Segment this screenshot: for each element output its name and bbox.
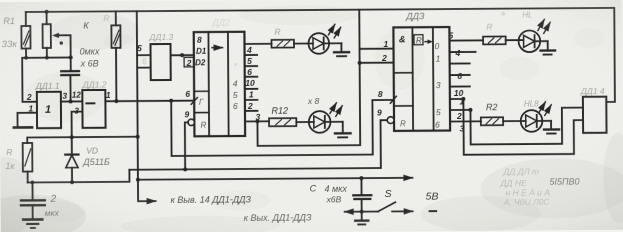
ground below C2 — [23, 219, 42, 228]
pin 6 DD1.3 wire down to supply line — [137, 55, 151, 180]
wire bottom minus rail right with arrow — [392, 210, 412, 212]
node dot DD3 pin2 out — [468, 108, 472, 112]
LED arrows row C — [538, 19, 550, 33]
ground row A — [334, 43, 349, 56]
LED arrows row B — [330, 103, 342, 117]
ground at DD1.1 pin 1 — [14, 126, 32, 129]
wire DD3 pin 2 — [360, 62, 394, 64]
ground row C — [540, 41, 555, 55]
noise speck — [60, 41, 63, 44]
node dot DD3 clock tap — [358, 61, 362, 65]
LED arrows row A — [328, 24, 340, 38]
ground row D — [544, 121, 559, 134]
node dot R3/out — [114, 99, 118, 103]
resistor row C — [483, 36, 506, 44]
node dot supply vertical — [136, 135, 140, 139]
capacitor C1 — [61, 57, 79, 101]
pin 11 output DD1.2 wire — [105, 89, 194, 101]
switch S1 lever — [378, 202, 395, 211]
pin 4 output DD1.3 wire to DD2 — [171, 54, 194, 56]
resistor R12 (row B) — [269, 118, 296, 126]
counter DD2 box — [194, 32, 245, 137]
wire y3 reset line (to R pins) — [129, 120, 388, 170]
capacitor C2 — [21, 182, 45, 219]
wire y4 supply line — [138, 178, 412, 180]
node dot DD2 pin3 — [255, 119, 259, 123]
DD2 clock input C with dynamic slash — [191, 98, 204, 107]
faint parts list text — [499, 166, 579, 207]
DD2 reset bubble pin 9 — [188, 119, 194, 125]
ground below C3 — [355, 212, 368, 225]
wire DD3 pin 1 — [360, 48, 394, 50]
DD2 output pin numbers — [245, 45, 261, 122]
LED HL row A — [294, 33, 342, 54]
wire bottom minus rail left with arrow — [345, 211, 379, 213]
node dot reset/DD2 R — [183, 167, 187, 171]
gate DD1.4 — [583, 97, 607, 133]
pin 3 output DD1.1 wire — [61, 91, 83, 102]
resistor R3 — [111, 11, 121, 101]
DD3 output pin numbers — [448, 30, 464, 133]
LED arrows row D — [539, 102, 551, 116]
node dot C3 bottom rail — [360, 210, 364, 214]
node dot C3 top — [359, 176, 363, 180]
node dot C1 bottom — [69, 99, 73, 103]
label R1 value — [1, 16, 17, 49]
wire R4 top to supply vertical — [27, 137, 137, 143]
junction dots bottom rail — [24, 55, 73, 59]
DD3 internal state labels 0 1 3 5 6 — [434, 41, 441, 130]
pin labels 1 2 DD3 — [381, 39, 389, 63]
DD2 direction arrow — [212, 47, 222, 49]
DD2 internal state labels 4 5 6 — [233, 79, 238, 112]
LED row C — [506, 30, 548, 52]
DD3 R box with arrow — [414, 35, 433, 46]
label VD1 — [82, 145, 110, 167]
resistor R1 — [21, 12, 30, 58]
DD2 pin 3 output wire to R12 — [245, 120, 269, 122]
wire stub to pin14 label — [138, 180, 156, 202]
node dot DD2 C branch — [169, 99, 173, 103]
node dot supply corner — [136, 178, 140, 182]
wire y2 (DD1.2 out to DD3 pin 8) — [171, 99, 394, 156]
minus dash terminal — [430, 210, 436, 212]
LED row B — [296, 111, 343, 133]
wire rail corner to DD1.3 pin5 — [137, 11, 151, 55]
gate DD1.3 — [150, 44, 170, 80]
label C3 value — [309, 183, 347, 204]
resistor R2x row D — [481, 117, 503, 125]
DD3 reset bubble pin 9 — [387, 117, 394, 124]
wire feedback y1 (DD2 pin3 to DD3 clock net) — [257, 10, 361, 146]
ground row B — [335, 122, 351, 138]
node dot VD1 bottom — [70, 180, 74, 184]
node dot R2 top — [45, 10, 49, 14]
label C1 value — [80, 46, 101, 68]
DD3 output stubs — [449, 40, 483, 121]
op gate DD1.1 — [37, 92, 61, 128]
node dot output DD1.3 — [180, 53, 184, 57]
wire DD3 out to DD1.4 lower input — [463, 98, 583, 155]
pin 1 DD1.1 wire to ground — [17, 103, 37, 126]
boxed pin 2 of DD2 — [184, 57, 194, 67]
pin 13 DD1.2 wire down to VD1 — [72, 107, 83, 155]
diode VD1 — [65, 155, 78, 183]
LED row D — [503, 110, 551, 132]
DD3 dynamic slash pin 8 — [390, 96, 396, 103]
label C2 value — [45, 194, 60, 218]
wire top supply rail — [26, 8, 615, 106]
label R4 value — [5, 147, 15, 171]
capacitor C3 — [353, 178, 371, 212]
wire reset node line — [28, 170, 130, 183]
resistor R4 — [23, 143, 33, 183]
wire DD3 out to DD1.4 upper input — [470, 108, 583, 145]
wire DD2 R pin drop — [185, 122, 189, 169]
gate DD1.2 — [82, 90, 105, 128]
wire bottom rail of R1/R2 net — [22, 57, 71, 101]
resistor R5 (row A) — [271, 40, 294, 48]
DD2 output stubs — [244, 44, 271, 111]
node dot VD1 branch — [70, 135, 74, 139]
DD2 left column labels 8 D1 D2 — [195, 35, 207, 68]
node dot C2 top — [31, 181, 35, 185]
counter DD3 box — [393, 27, 450, 131]
node dot DD3 pin1 out — [461, 97, 465, 101]
potentiometer R2 — [42, 12, 70, 58]
